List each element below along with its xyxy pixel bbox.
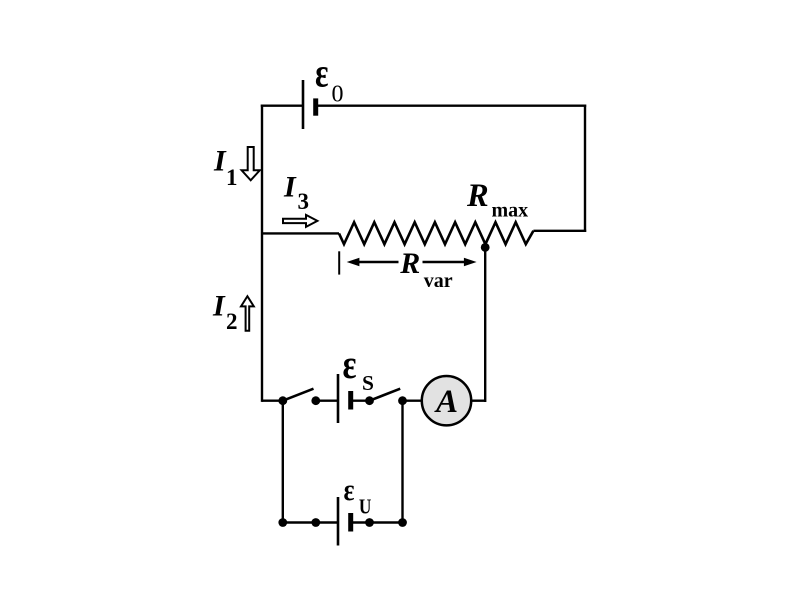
wire: left vertical down to EU branch	[282, 401, 284, 523]
wire: from battery ES to S2 pivot	[351, 400, 370, 402]
wire: left vertical	[261, 105, 263, 402]
wire: resistor right lead	[533, 230, 586, 232]
wire: from dot to ammeter	[403, 400, 422, 402]
svg-text:0: 0	[332, 81, 344, 107]
battery ES short plate	[348, 391, 353, 410]
wire: ammeter right lead	[471, 400, 485, 402]
wire: EU branch right horizontal	[351, 521, 403, 523]
switch S1 blade	[283, 389, 314, 401]
svg-text:I: I	[283, 171, 297, 204]
svg-text:1: 1	[226, 165, 238, 190]
wire: EU branch left horizontal	[283, 521, 338, 523]
dimension arrow left (points left)	[357, 261, 399, 263]
arrow: hollow down arrow for I1	[242, 147, 260, 180]
svg-text:var: var	[424, 270, 453, 292]
svg-text:R: R	[399, 247, 420, 280]
node: EU branch right dot	[398, 518, 407, 527]
wire: wiper vertical down to ammeter branch	[484, 247, 486, 402]
svg-text:U: U	[359, 495, 372, 519]
battery EU long plate	[337, 497, 340, 546]
dimension arrow right (points right)	[423, 261, 465, 263]
wire: top horizontal from battery to right corner	[316, 104, 587, 106]
wire: right vertical	[584, 105, 586, 233]
svg-text:ε: ε	[344, 472, 355, 507]
svg-text:A: A	[434, 384, 458, 420]
node: dot contact of switch S1	[311, 396, 320, 405]
svg-text:max: max	[492, 200, 529, 222]
svg-text:R: R	[466, 178, 489, 214]
wire: from S1 contact to battery ES	[316, 400, 338, 402]
wire: middle horizontal to resistor	[262, 232, 339, 234]
ammeter A circle	[422, 376, 471, 425]
resistor Rmax zigzag	[339, 222, 533, 244]
wire: top-left horizontal segment to battery	[261, 104, 303, 106]
node: EU branch dot 3	[365, 518, 374, 527]
node: wiper junction dot on resistor	[481, 243, 490, 252]
battery ES long plate	[337, 374, 340, 423]
wire: switch branch left horizontal	[262, 400, 283, 402]
node: EU branch dot 2	[311, 518, 320, 527]
svg-text:ε: ε	[343, 341, 357, 387]
battery E0 short plate	[313, 98, 318, 115]
svg-text:S: S	[362, 371, 374, 395]
svg-text:I: I	[213, 144, 227, 177]
node: EU branch left dot	[278, 518, 287, 527]
battery E0 long plate	[302, 80, 305, 129]
dimension tick: left end of Rvar	[338, 251, 340, 274]
svg-text:ε: ε	[315, 50, 329, 96]
arrow: hollow right arrow for I3	[283, 215, 317, 227]
switch S2 blade	[370, 389, 401, 401]
battery EU short plate	[348, 513, 353, 532]
wire: right vertical down to EU branch	[401, 401, 403, 523]
node: dot junction left of switch S1	[278, 396, 287, 405]
arrow: hollow up arrow for I2	[241, 296, 254, 331]
node: dot pivot of switch S2	[365, 396, 374, 405]
svg-text:3: 3	[298, 189, 310, 214]
node: dot junction right of switch S2	[398, 396, 407, 405]
svg-text:I: I	[212, 289, 226, 322]
svg-text:2: 2	[226, 309, 238, 334]
